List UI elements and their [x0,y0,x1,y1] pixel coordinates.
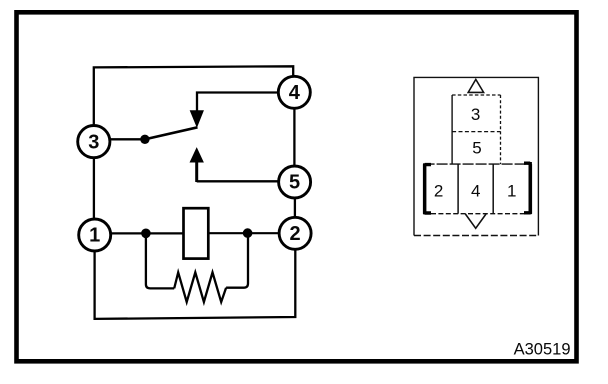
svg-text:A30519: A30519 [514,341,571,359]
svg-text:3: 3 [88,131,99,153]
connector cavity 3 [451,95,453,164]
terminal circle 1 [79,219,111,251]
svg-text:4: 4 [289,82,301,104]
wire pin1 to coil left [111,232,184,234]
switch blade [145,127,198,139]
svg-text:1: 1 [507,181,516,200]
contact arrow down [190,111,203,127]
junction dot coil left [141,229,151,239]
wire pin3 to switch pivot [110,138,144,140]
wire top: pin3 up, across, down to pin4 [94,66,293,126]
connector divider 4|1 [492,164,494,214]
connector down triangle [465,214,486,228]
wire pin4 to pin5 [293,108,295,166]
svg-text:4: 4 [471,181,480,200]
terminal circle 5 [279,166,311,198]
resistor R zigzag [174,272,226,302]
resistor branch wire left [146,233,174,288]
svg-text:2: 2 [290,223,301,245]
terminal circle 3 [78,126,110,158]
terminal circle 2 [279,217,311,249]
connector cavity 5 [500,95,502,164]
svg-text:2: 2 [434,181,443,200]
junction dot switch pivot [140,135,149,144]
resistor branch wire right [226,233,248,287]
connector bottom row outline [424,163,532,165]
wire NO contact: pin4 left to down-arrow stem [197,93,279,112]
wire NC contact: pin5 left to up-arrow stem [197,180,279,182]
connector heavy edge right [524,162,530,214]
contact arrow up [190,148,203,162]
wire pin5 to pin2 [294,198,296,218]
wire bottom loop: pin1 down, across, up to pin2 [95,249,296,319]
connector heavy edge left [425,163,431,214]
svg-text:5: 5 [472,139,481,158]
connector outer box [414,77,538,235]
connector up triangle [468,79,483,92]
junction dot coil right [243,228,253,238]
wire pin3 to pin1 [93,158,95,220]
svg-text:1: 1 [89,225,100,247]
svg-text:5: 5 [289,172,300,194]
svg-text:3: 3 [471,105,480,124]
terminal circle 4 [278,76,310,108]
wire coil right to pin2 [208,232,279,234]
relay coil [184,208,209,258]
connector divider 2|4 [457,164,459,214]
